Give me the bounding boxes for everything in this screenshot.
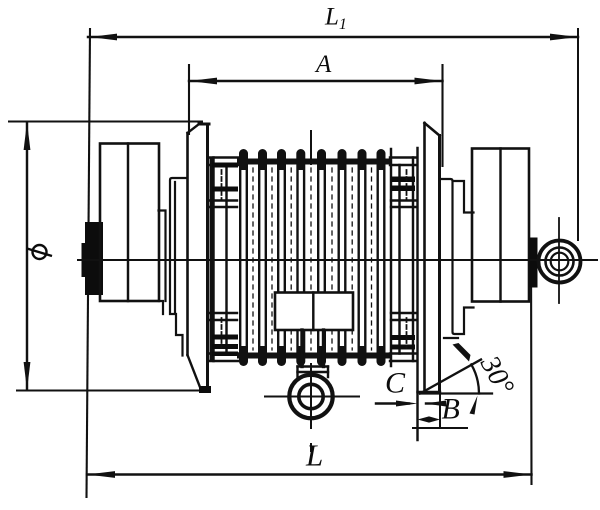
left bearing inner step lines xyxy=(209,199,237,201)
right eyebolt bracket (solid black) xyxy=(530,238,538,288)
angle 30deg: slant line, reference line, arc and arrowheads xyxy=(420,360,481,394)
left hidden bolt centerline dashes xyxy=(221,170,223,200)
bearing housing horizontal edges xyxy=(209,156,238,158)
left eccentric-weight cover xyxy=(100,144,159,302)
hidden dashes in fin gaps xyxy=(253,168,372,350)
right bearing housing vertical edges xyxy=(390,149,392,366)
dimension C: arrows and leader lines xyxy=(376,402,409,404)
dimension phi: bottom extension line / baseline xyxy=(17,390,208,392)
left flange plate xyxy=(186,133,189,355)
dimension phi: vertical dimension line with arrowheads xyxy=(26,122,28,390)
right cover inner edge line xyxy=(499,149,501,302)
right bearing inner step lines xyxy=(391,199,416,201)
dimension L1: left extension line xyxy=(87,29,91,497)
dimension A: right extension line xyxy=(441,65,443,166)
dimension L: dimension line with arrowheads xyxy=(87,473,532,475)
dark seam right of left flange xyxy=(210,158,213,360)
dimension B: arrows and reference lines xyxy=(418,416,430,422)
svg-text:L: L xyxy=(305,438,323,473)
right hidden bolt centerline dashes xyxy=(406,170,408,200)
dimension L1: right extension line xyxy=(577,29,579,240)
dimension L1: dimension line with arrowheads xyxy=(88,36,578,38)
bottom eyebolt boss xyxy=(300,330,303,367)
right bearing bolt hatch bands xyxy=(391,177,415,350)
right flange plate xyxy=(423,123,426,392)
right eyebolt vertical centerline xyxy=(558,218,560,303)
svg-text:A: A xyxy=(314,51,332,78)
centerline: main axis overlay across housing and eyebolt xyxy=(78,259,597,261)
left stepped hub between cover and flange xyxy=(159,178,187,356)
left cover inner edge line xyxy=(127,144,129,302)
right stepped hub between flange and cover xyxy=(441,179,474,338)
dimension L: right extension line xyxy=(530,240,533,484)
centerline: main horizontal axis xyxy=(78,259,597,261)
label phi (rotated diameter symbol) xyxy=(27,245,52,259)
right eccentric-weight cover xyxy=(472,149,529,302)
svg-text:C: C xyxy=(385,367,406,400)
left flange foot (solid black) xyxy=(199,386,211,393)
dimension A: left extension line xyxy=(188,65,190,134)
centerline: vertical mark above housing xyxy=(310,131,312,164)
shaft end (solid black) at left xyxy=(82,222,104,295)
bottom eyebolt centerlines xyxy=(265,396,359,398)
cooling fin shoulder bands xyxy=(237,159,391,165)
left bearing housing vertical edges xyxy=(212,158,214,362)
svg-text:B: B xyxy=(442,393,460,426)
right eyebolt rings xyxy=(539,241,581,283)
left bearing bolt hatch bands xyxy=(212,163,238,357)
bottom eyebolt rings xyxy=(289,375,332,418)
dimension phi: top extension line xyxy=(9,121,202,123)
nameplate / terminal box xyxy=(275,293,353,331)
dimension A: dimension line with arrowheads xyxy=(189,80,443,82)
cooling fins xyxy=(239,149,386,366)
